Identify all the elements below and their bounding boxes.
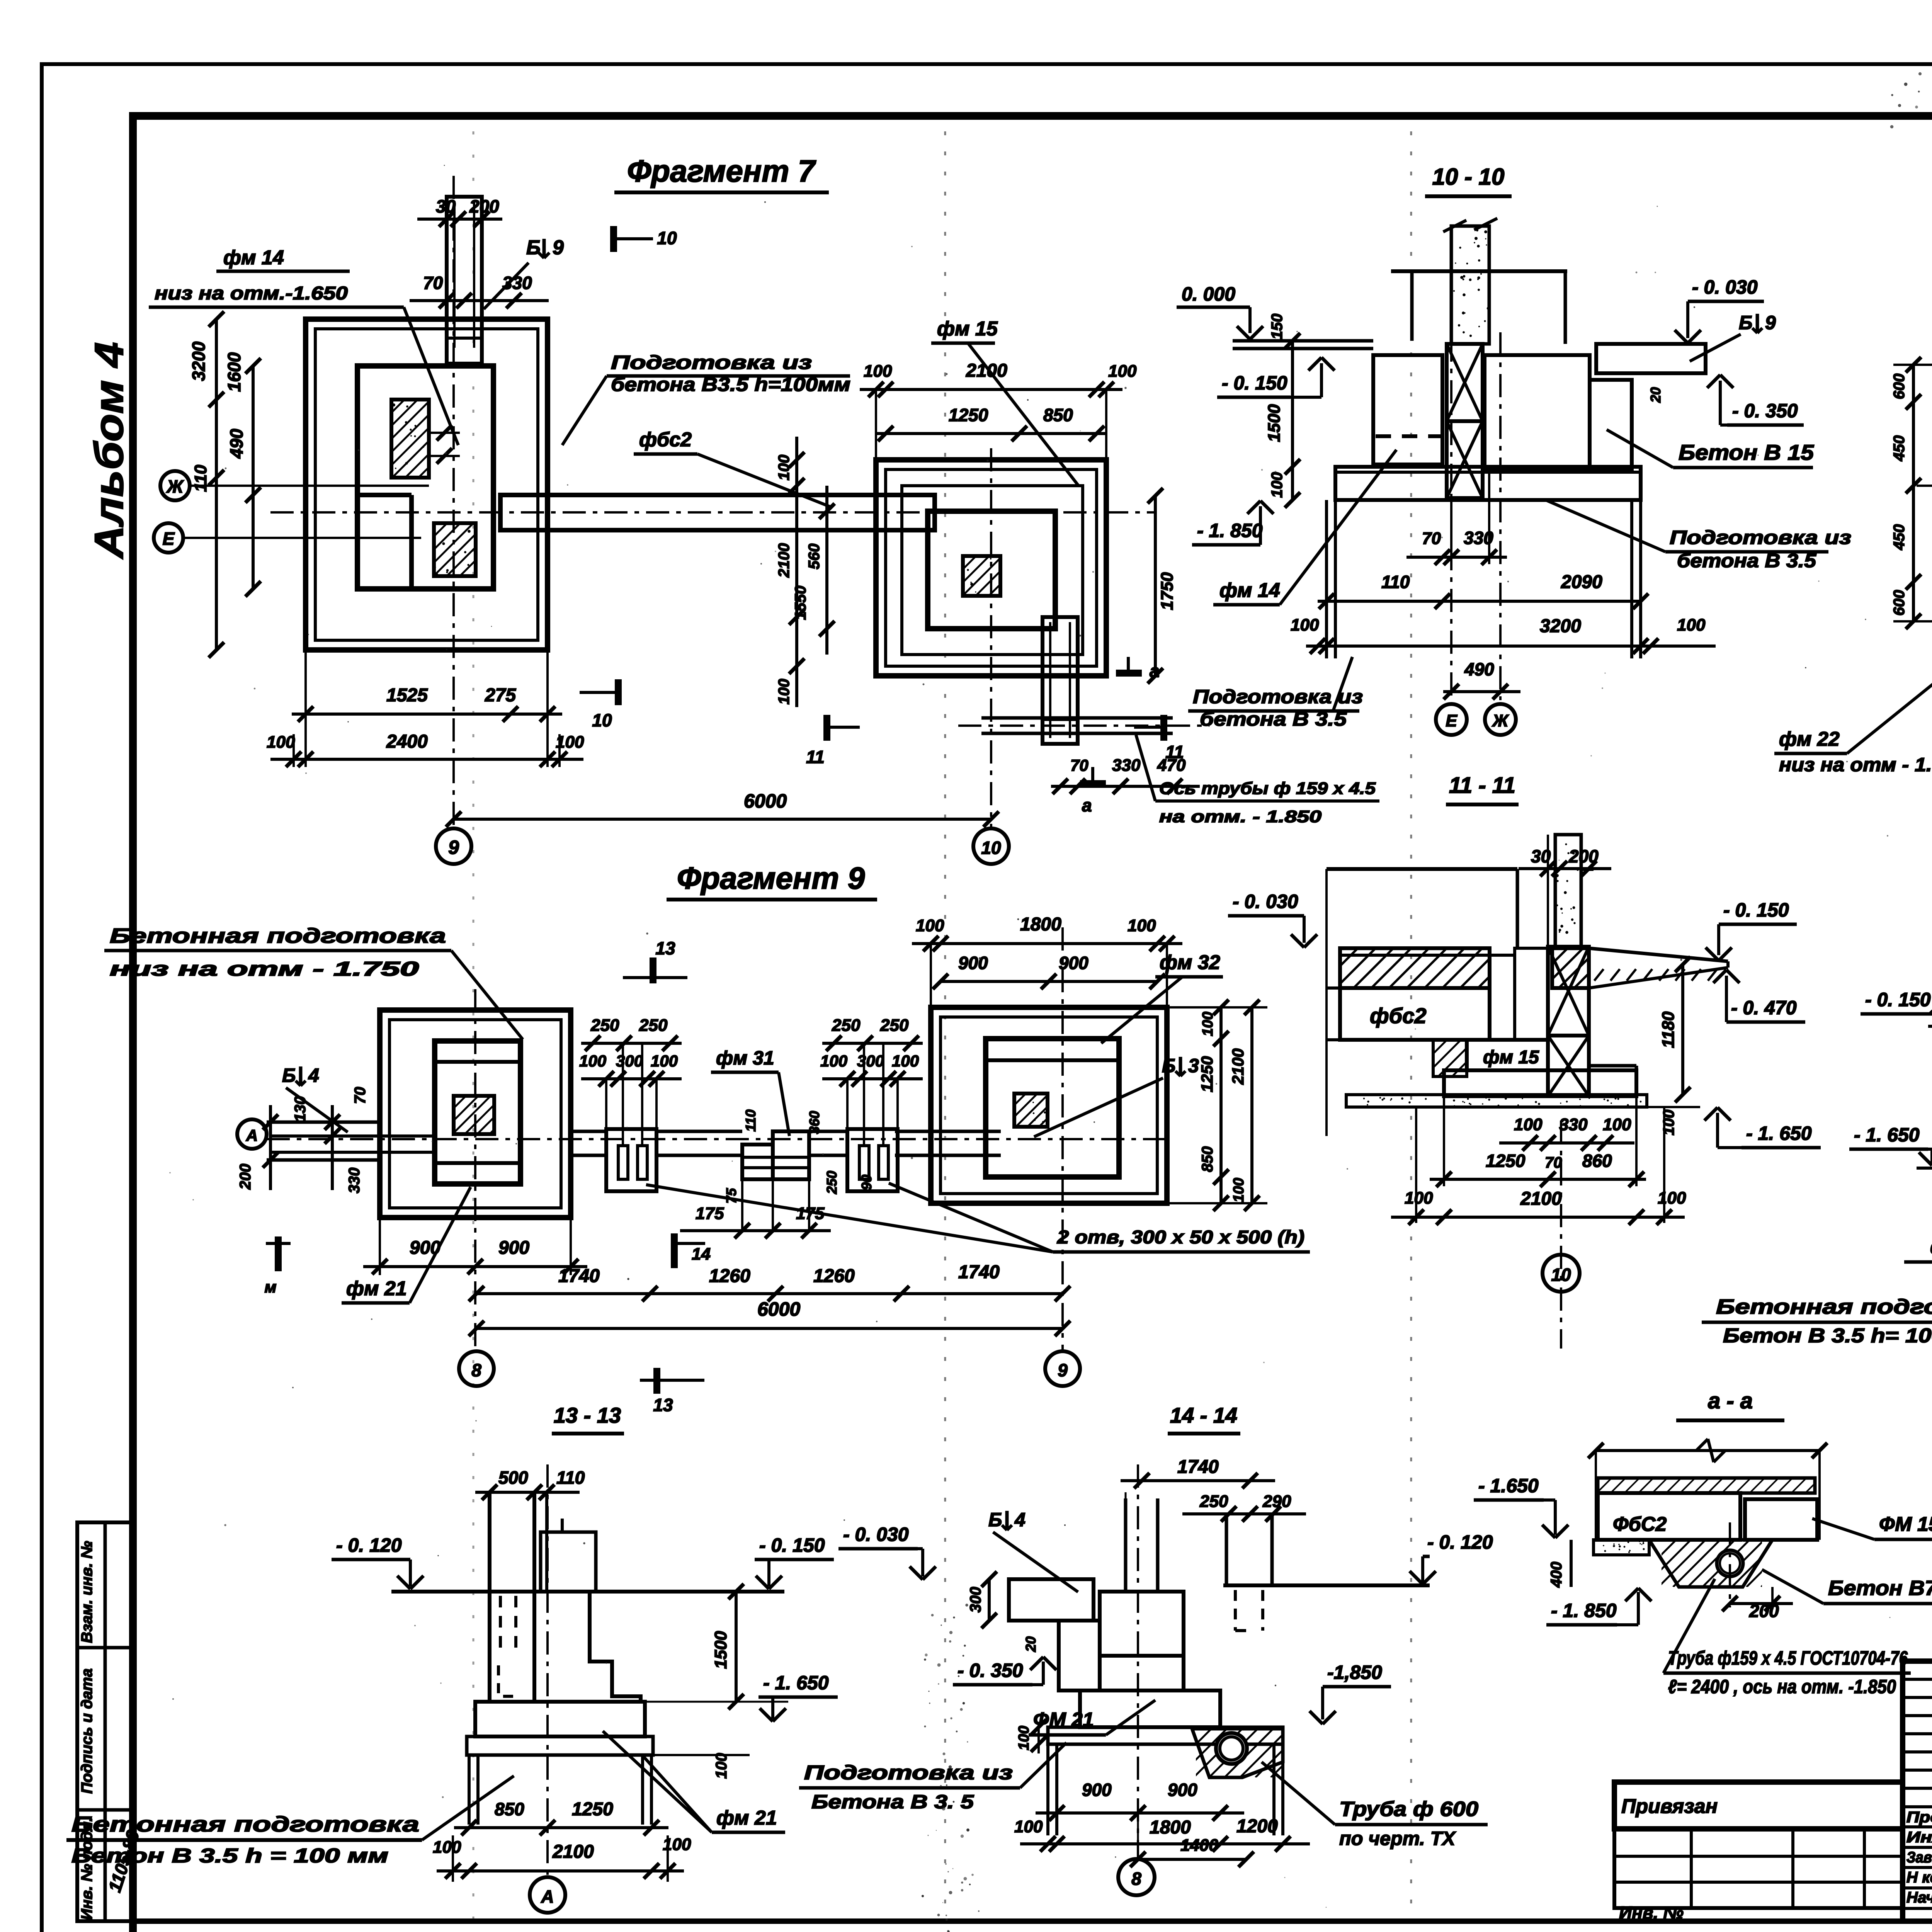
svg-text:Ось трубы ф 159 х 4.5: Ось трубы ф 159 х 4.5: [1159, 779, 1376, 798]
svg-text:10: 10: [1551, 1265, 1571, 1285]
svg-text:100: 100: [713, 1753, 730, 1779]
svg-text:860: 860: [1582, 1151, 1612, 1171]
svg-text:- 0. 470: - 0. 470: [1731, 997, 1797, 1019]
svg-text:11: 11: [806, 747, 825, 767]
svg-text:м: м: [264, 1278, 276, 1296]
svg-text:9: 9: [1765, 312, 1776, 333]
svg-text:110: 110: [1381, 572, 1410, 592]
svg-text:6000: 6000: [744, 790, 787, 812]
svg-text:1525: 1525: [386, 685, 428, 706]
svg-text:2100: 2100: [1520, 1189, 1562, 1209]
svg-text:500: 500: [498, 1468, 528, 1488]
svg-text:110: 110: [556, 1468, 585, 1488]
svg-text:Бетонная подготовка: Бетонная подготовка: [1716, 1295, 1932, 1318]
svg-text:100: 100: [1108, 362, 1137, 381]
svg-text:8: 8: [471, 1360, 481, 1380]
svg-text:ℓ= 2400 , ось на отм. -1.850: ℓ= 2400 , ось на отм. -1.850: [1668, 1676, 1896, 1697]
svg-text:бетона В 3.5: бетона В 3.5: [1200, 708, 1347, 730]
svg-text:Н контр: Н контр: [1906, 1869, 1932, 1886]
svg-text:- 1. 850: - 1. 850: [1197, 520, 1263, 541]
svg-text:900: 900: [498, 1238, 529, 1258]
svg-text:фм 15: фм 15: [1483, 1047, 1539, 1068]
svg-text:1250: 1250: [1486, 1151, 1526, 1171]
svg-text:100: 100: [1291, 616, 1319, 634]
svg-text:100: 100: [579, 1052, 606, 1070]
svg-text:14 - 14: 14 - 14: [1170, 1403, 1237, 1427]
svg-text:фм 32: фм 32: [1160, 951, 1220, 974]
svg-text:100: 100: [776, 679, 793, 705]
svg-text:Труба ф159 х 4.5 ГОСТ10704-7: Труба ф159 х 4.5 ГОСТ10704-76: [1668, 1647, 1908, 1669]
svg-text:- 0. 030: - 0. 030: [843, 1524, 909, 1545]
svg-text:2100: 2100: [552, 1842, 594, 1862]
svg-text:200: 200: [469, 196, 499, 216]
svg-text:2090: 2090: [1561, 572, 1602, 592]
svg-text:175: 175: [696, 1204, 724, 1223]
svg-text:400: 400: [1548, 1562, 1565, 1588]
svg-text:150: 150: [1269, 314, 1286, 340]
svg-text:Ж: Ж: [1492, 711, 1509, 730]
svg-text:14: 14: [692, 1245, 711, 1264]
svg-text:250: 250: [639, 1016, 668, 1035]
svg-text:низ на отм - 1. 650: низ на отм - 1. 650: [1779, 754, 1932, 776]
svg-text:200: 200: [237, 1164, 254, 1190]
svg-text:фм 22: фм 22: [1779, 728, 1840, 750]
svg-text:1740: 1740: [1177, 1457, 1219, 1477]
svg-text:10: 10: [657, 228, 677, 248]
svg-text:фм 15: фм 15: [937, 318, 998, 340]
svg-text:бетона В 3.5: бетона В 3.5: [1677, 550, 1816, 571]
svg-text:490: 490: [226, 429, 247, 459]
svg-text:Е: Е: [163, 529, 175, 549]
svg-text:10: 10: [981, 838, 1001, 858]
svg-text:450: 450: [1891, 435, 1908, 462]
svg-text:900: 900: [1082, 1780, 1112, 1800]
svg-text:фм 21: фм 21: [346, 1277, 407, 1300]
svg-text:2100: 2100: [966, 361, 1007, 381]
svg-text:100: 100: [1200, 1012, 1216, 1036]
svg-text:6000: 6000: [757, 1298, 800, 1320]
svg-text:ФМ 21: ФМ 21: [1033, 1709, 1094, 1731]
svg-text:1250: 1250: [572, 1799, 613, 1820]
svg-text:низ на отм.-1.650: низ на отм.-1.650: [155, 283, 348, 304]
svg-text:330: 330: [1112, 756, 1141, 775]
svg-text:4: 4: [308, 1065, 319, 1086]
svg-text:2100: 2100: [1229, 1048, 1247, 1085]
svg-text:850: 850: [1043, 405, 1073, 425]
svg-text:1250: 1250: [949, 405, 988, 425]
svg-text:Привязан: Привязан: [1621, 1795, 1718, 1818]
svg-text:13: 13: [653, 1395, 673, 1415]
svg-text:100: 100: [1014, 1817, 1043, 1836]
svg-text:а - а: а - а: [1708, 1388, 1753, 1413]
svg-text:Бетон В 3.5 h= 100 мм: Бетон В 3.5 h= 100 мм: [1723, 1325, 1932, 1347]
svg-text:100: 100: [916, 916, 944, 935]
svg-text:Инв. №: Инв. №: [1619, 1903, 1684, 1923]
svg-text:Бетонная подготовка: Бетонная подготовка: [110, 924, 446, 947]
svg-text:1200: 1200: [1236, 1816, 1278, 1837]
svg-text:фбс2: фбс2: [1370, 1003, 1427, 1028]
svg-text:-1,850: -1,850: [1327, 1662, 1382, 1683]
svg-text:Альбом 4: Альбом 4: [87, 342, 132, 560]
svg-text:100: 100: [864, 362, 892, 381]
svg-text:275: 275: [485, 685, 516, 706]
svg-text:250: 250: [880, 1016, 909, 1035]
svg-text:70: 70: [1545, 1154, 1562, 1171]
svg-text:- 1.650: - 1.650: [1478, 1475, 1539, 1497]
svg-text:Инж 1к: Инж 1к: [1906, 1829, 1932, 1846]
svg-text:1400: 1400: [1180, 1836, 1218, 1855]
svg-text:13 - 13: 13 - 13: [554, 1403, 621, 1427]
svg-text:Подпись и дата: Подпись и дата: [78, 1668, 95, 1794]
svg-text:600: 600: [1891, 374, 1908, 400]
svg-text:100: 100: [820, 1052, 847, 1070]
svg-text:фм 31: фм 31: [716, 1047, 774, 1069]
svg-text:600: 600: [1891, 590, 1908, 616]
svg-text:Подготовка из: Подготовка из: [804, 1762, 1013, 1784]
svg-text:Фрагмент 7: Фрагмент 7: [627, 154, 816, 188]
svg-text:250: 250: [590, 1016, 619, 1035]
svg-text:330: 330: [1559, 1115, 1588, 1134]
svg-text:низ на отм - 1.750: низ на отм - 1.750: [110, 958, 419, 980]
svg-text:- 1. 650: - 1. 650: [1854, 1124, 1920, 1146]
svg-text:Ж: Ж: [166, 476, 184, 497]
svg-text:Б: Б: [1162, 1055, 1175, 1077]
svg-text:Б: Б: [282, 1065, 296, 1086]
svg-text:100: 100: [1016, 1726, 1032, 1750]
svg-text:360: 360: [806, 1111, 822, 1134]
svg-text:110: 110: [191, 464, 210, 492]
svg-text:2100: 2100: [776, 543, 793, 578]
svg-text:1500: 1500: [1265, 404, 1284, 442]
svg-text:850: 850: [1199, 1146, 1216, 1172]
svg-text:бетона В3.5 h=100мм: бетона В3.5 h=100мм: [611, 374, 850, 395]
svg-text:фм 14: фм 14: [223, 247, 284, 269]
svg-text:100: 100: [892, 1052, 919, 1070]
svg-text:100: 100: [1405, 1189, 1433, 1207]
svg-text:Нач отд: Нач отд: [1906, 1889, 1932, 1906]
svg-text:Б: Б: [526, 236, 541, 259]
svg-text:8: 8: [1131, 1869, 1141, 1889]
svg-text:- 0. 150: - 0. 150: [759, 1534, 825, 1556]
svg-text:300: 300: [616, 1052, 643, 1070]
svg-text:250: 250: [824, 1171, 840, 1194]
svg-text:100: 100: [1660, 1110, 1677, 1136]
svg-text:Бетон В 3.5 h = 100 мм: Бетон В 3.5 h = 100 мм: [71, 1845, 388, 1867]
svg-text:- 0. 120: - 0. 120: [1427, 1531, 1493, 1553]
svg-text:900: 900: [1059, 953, 1088, 973]
svg-text:фм 22: фм 22: [1930, 1236, 1932, 1258]
svg-text:70: 70: [352, 1087, 369, 1104]
svg-text:450: 450: [1891, 524, 1908, 551]
svg-text:850: 850: [495, 1799, 524, 1819]
svg-text:1500: 1500: [711, 1631, 730, 1669]
svg-text:по черт. ТХ: по черт. ТХ: [1339, 1828, 1456, 1849]
svg-text:70: 70: [423, 273, 443, 293]
svg-text:2400: 2400: [386, 731, 428, 752]
svg-text:фм 21: фм 21: [716, 1807, 777, 1829]
svg-text:1260: 1260: [813, 1266, 855, 1286]
svg-text:100: 100: [651, 1052, 678, 1070]
svg-text:1180: 1180: [1659, 1011, 1678, 1048]
svg-text:11 - 11: 11 - 11: [1449, 773, 1515, 798]
svg-text:а: а: [1082, 795, 1092, 815]
svg-text:100: 100: [433, 1838, 461, 1857]
svg-text:1800: 1800: [1020, 914, 1061, 935]
svg-text:- 0. 030: - 0. 030: [1692, 276, 1758, 298]
svg-text:100: 100: [1269, 472, 1286, 498]
svg-text:2 отв, 300 х 50 х 500 (h): 2 отв, 300 х 50 х 500 (h): [1057, 1227, 1304, 1248]
svg-text:- 0. 350: - 0. 350: [1732, 400, 1798, 422]
svg-text:4: 4: [1014, 1509, 1026, 1531]
svg-text:100: 100: [776, 455, 793, 481]
svg-text:900: 900: [1168, 1780, 1197, 1800]
svg-text:250: 250: [1199, 1492, 1228, 1511]
svg-text:3: 3: [1188, 1055, 1199, 1077]
svg-text:- 1. 850: - 1. 850: [1551, 1600, 1617, 1621]
svg-text:20: 20: [1648, 387, 1663, 403]
svg-text:Бетон В7.5: Бетон В7.5: [1828, 1577, 1932, 1600]
svg-text:- 0. 150: - 0. 150: [1723, 899, 1789, 921]
svg-text:3200: 3200: [1540, 616, 1581, 636]
svg-text:9: 9: [1058, 1360, 1068, 1380]
svg-text:Труба ф 600: Труба ф 600: [1339, 1798, 1478, 1821]
svg-text:1550: 1550: [792, 586, 809, 620]
svg-text:110: 110: [743, 1109, 759, 1131]
svg-text:- 0. 150: - 0. 150: [1222, 372, 1287, 394]
svg-text:250: 250: [832, 1016, 861, 1035]
svg-text:100: 100: [1603, 1115, 1631, 1134]
svg-text:1250: 1250: [1198, 1056, 1216, 1092]
svg-text:Провер: Провер: [1906, 1809, 1932, 1826]
svg-text:900: 900: [958, 953, 988, 973]
svg-text:13: 13: [655, 938, 675, 958]
svg-text:- 0. 030: - 0. 030: [1233, 891, 1298, 912]
svg-text:70: 70: [1070, 756, 1088, 774]
svg-text:- 1. 650: - 1. 650: [763, 1672, 829, 1694]
svg-text:Фрагмент 9: Фрагмент 9: [677, 861, 865, 895]
svg-text:100: 100: [1677, 616, 1706, 634]
svg-text:фм 14: фм 14: [1219, 579, 1280, 602]
svg-text:Е: Е: [1446, 711, 1458, 730]
svg-text:330: 330: [346, 1168, 363, 1194]
svg-text:100: 100: [1231, 1178, 1247, 1202]
svg-text:- 1. 650: - 1. 650: [1746, 1122, 1812, 1144]
svg-text:10: 10: [592, 710, 612, 730]
svg-text:20: 20: [1023, 1636, 1039, 1652]
svg-text:300: 300: [967, 1587, 984, 1613]
svg-text:1740: 1740: [958, 1262, 1000, 1282]
svg-text:фбс2: фбс2: [639, 429, 692, 451]
svg-text:9: 9: [553, 236, 564, 259]
svg-text:на отм. - 1.850: на отм. - 1.850: [1159, 807, 1322, 826]
svg-text:А: А: [246, 1126, 258, 1145]
svg-text:ФбС2: ФбС2: [1613, 1513, 1667, 1536]
svg-text:- 0. 150: - 0. 150: [1865, 989, 1931, 1010]
svg-text:9: 9: [448, 837, 459, 858]
svg-text:Подготовка из: Подготовка из: [1670, 527, 1851, 548]
svg-text:а: а: [1150, 661, 1160, 681]
svg-text:130: 130: [292, 1096, 309, 1122]
svg-text:Б: Б: [988, 1509, 1002, 1531]
svg-text:75: 75: [723, 1188, 739, 1204]
svg-text:70: 70: [1422, 529, 1441, 548]
svg-text:Зав. груп: Зав. груп: [1906, 1849, 1932, 1866]
svg-text:1740: 1740: [558, 1266, 600, 1286]
svg-text:1800: 1800: [1150, 1817, 1191, 1838]
svg-text:300: 300: [857, 1052, 884, 1070]
svg-text:- 0. 120: - 0. 120: [336, 1534, 402, 1556]
svg-text:ФМ 15: ФМ 15: [1879, 1513, 1932, 1536]
svg-text:1260: 1260: [709, 1266, 750, 1286]
svg-text:А: А: [541, 1886, 554, 1906]
svg-text:Бетона В 3. 5: Бетона В 3. 5: [811, 1791, 974, 1813]
svg-text:Бетон В 15: Бетон В 15: [1679, 440, 1814, 464]
svg-text:100: 100: [1658, 1189, 1686, 1207]
svg-text:90: 90: [859, 1175, 874, 1190]
svg-text:- 0. 350: - 0. 350: [957, 1660, 1023, 1681]
svg-text:Б: Б: [1739, 312, 1752, 333]
svg-text:Взам. инв. №: Взам. инв. №: [78, 1541, 95, 1643]
svg-text:100: 100: [1128, 916, 1156, 935]
svg-text:560: 560: [806, 544, 823, 570]
svg-text:11: 11: [1165, 742, 1184, 762]
svg-text:490: 490: [1464, 659, 1494, 679]
svg-text:3200: 3200: [189, 341, 209, 381]
svg-text:100: 100: [1514, 1115, 1543, 1134]
svg-text:10 - 10: 10 - 10: [1432, 164, 1505, 190]
svg-text:1600: 1600: [224, 352, 244, 392]
svg-text:1750: 1750: [1158, 572, 1177, 610]
svg-text:0. 000: 0. 000: [1182, 283, 1235, 305]
svg-text:100: 100: [267, 733, 295, 752]
svg-text:Подготовка из: Подготовка из: [611, 352, 812, 373]
svg-text:Бетонная подготовка: Бетонная подготовка: [71, 1812, 419, 1836]
